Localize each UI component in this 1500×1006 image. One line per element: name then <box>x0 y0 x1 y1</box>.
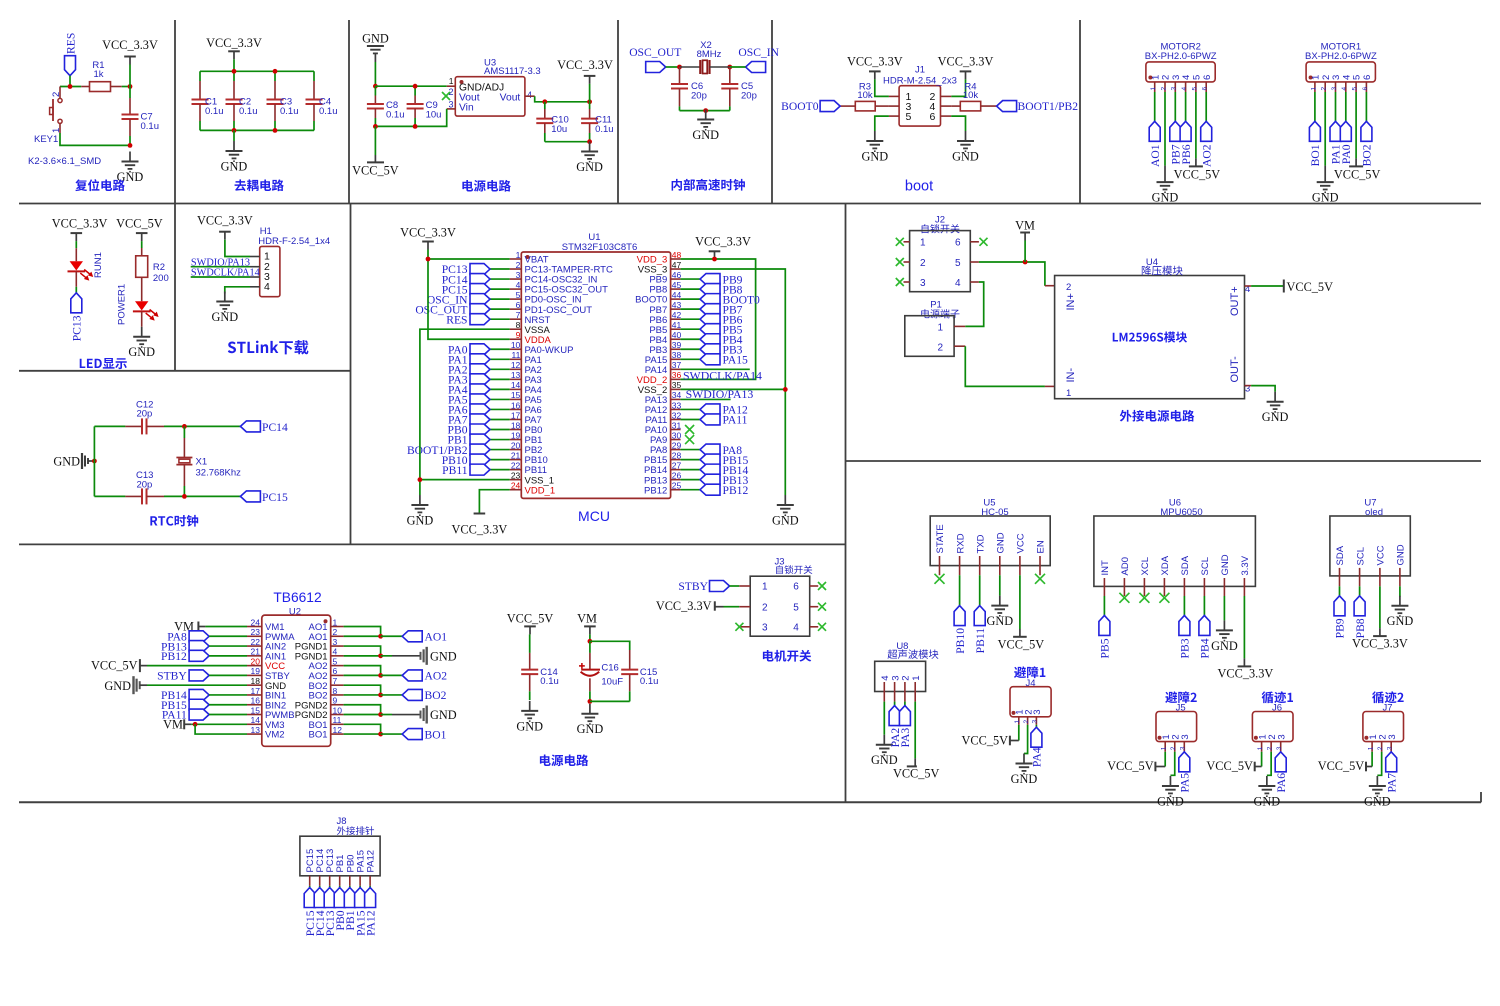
svg-text:15: 15 <box>251 705 261 715</box>
svg-text:44: 44 <box>672 290 682 300</box>
svg-text:5: 5 <box>955 258 961 269</box>
svg-text:1: 1 <box>1257 746 1264 750</box>
svg-text:VCC_5V: VCC_5V <box>962 734 1009 748</box>
svg-text:J1: J1 <box>915 65 925 76</box>
svg-text:SWDIO/PA13: SWDIO/PA13 <box>686 387 754 401</box>
svg-text:16: 16 <box>251 696 261 706</box>
svg-text:12: 12 <box>511 360 521 370</box>
svg-text:PB11: PB11 <box>442 464 468 477</box>
svg-text:6: 6 <box>955 238 961 249</box>
svg-text:15: 15 <box>511 390 521 400</box>
svg-text:VCC_5V: VCC_5V <box>1334 168 1381 182</box>
svg-text:2: 2 <box>937 342 943 353</box>
svg-text:1: 1 <box>937 323 943 334</box>
svg-text:PB12: PB12 <box>644 485 667 496</box>
svg-text:GND: GND <box>430 708 457 722</box>
svg-text:45: 45 <box>672 280 682 290</box>
svg-text:INT: INT <box>1100 560 1111 576</box>
svg-text:VCC_3.3V: VCC_3.3V <box>847 55 903 69</box>
svg-text:20p: 20p <box>136 479 152 490</box>
svg-text:SDA: SDA <box>1180 555 1191 575</box>
svg-text:R2: R2 <box>153 262 165 273</box>
svg-text:20p: 20p <box>741 90 757 101</box>
svg-text:1: 1 <box>1150 87 1157 91</box>
svg-text:6: 6 <box>333 666 338 676</box>
svg-text:47: 47 <box>672 260 682 270</box>
svg-text:PB9: PB9 <box>1334 618 1347 638</box>
svg-text:VCC_3.3V: VCC_3.3V <box>206 36 262 50</box>
svg-text:PC14: PC14 <box>262 421 288 434</box>
svg-text:GND: GND <box>577 722 604 736</box>
svg-text:RES: RES <box>64 33 77 54</box>
svg-text:2: 2 <box>1170 746 1177 750</box>
svg-text:10: 10 <box>333 705 343 715</box>
svg-text:17: 17 <box>511 410 521 420</box>
svg-text:BO1: BO1 <box>1309 144 1322 166</box>
svg-text:6: 6 <box>1362 87 1369 91</box>
svg-text:3: 3 <box>333 637 338 647</box>
svg-text:20p: 20p <box>691 90 707 101</box>
svg-text:GND: GND <box>1254 794 1281 808</box>
svg-text:PA15: PA15 <box>723 354 749 367</box>
svg-text:C16: C16 <box>601 663 618 674</box>
svg-text:GND: GND <box>1220 554 1231 575</box>
svg-text:VDD_1: VDD_1 <box>525 485 556 496</box>
svg-text:1: 1 <box>920 238 926 249</box>
svg-text:25: 25 <box>672 480 682 490</box>
svg-text:10: 10 <box>511 340 521 350</box>
svg-text:30: 30 <box>672 430 682 440</box>
svg-text:4: 4 <box>955 278 961 289</box>
svg-text:39: 39 <box>672 340 682 350</box>
svg-text:3: 3 <box>1171 87 1178 91</box>
svg-text:11: 11 <box>511 350 520 360</box>
svg-text:24: 24 <box>251 617 261 627</box>
svg-text:4: 4 <box>793 622 799 633</box>
svg-text:BO2: BO2 <box>425 689 447 702</box>
svg-text:7: 7 <box>333 676 338 686</box>
svg-text:XDA: XDA <box>1160 555 1171 575</box>
svg-text:23: 23 <box>251 627 261 637</box>
svg-text:4: 4 <box>264 281 270 293</box>
svg-text:VM: VM <box>1015 219 1035 233</box>
svg-text:12: 12 <box>333 725 343 735</box>
svg-text:3: 3 <box>1180 734 1191 739</box>
svg-text:0.1u: 0.1u <box>640 676 659 687</box>
svg-text:BOOT1/PB2: BOOT1/PB2 <box>1018 100 1079 113</box>
svg-text:GND: GND <box>1387 614 1414 628</box>
svg-text:AO1: AO1 <box>1149 144 1162 167</box>
svg-text:KEY1: KEY1 <box>34 134 58 145</box>
svg-text:6: 6 <box>930 111 936 123</box>
svg-text:3: 3 <box>1331 87 1338 91</box>
svg-text:3: 3 <box>448 100 453 110</box>
svg-text:STATE: STATE <box>935 524 946 553</box>
svg-text:40: 40 <box>672 330 682 340</box>
svg-text:2: 2 <box>920 258 926 269</box>
svg-text:GND: GND <box>1262 410 1289 424</box>
svg-text:PA0: PA0 <box>1340 144 1353 164</box>
svg-text:VCC_5V: VCC_5V <box>507 611 554 625</box>
svg-text:PB11: PB11 <box>974 628 987 654</box>
svg-text:GND: GND <box>1312 191 1339 205</box>
svg-text:5: 5 <box>793 602 799 613</box>
svg-text:0.1u: 0.1u <box>319 106 338 117</box>
svg-text:13: 13 <box>511 370 521 380</box>
svg-text:OSC_OUT: OSC_OUT <box>629 46 681 59</box>
svg-text:20p: 20p <box>136 409 152 420</box>
svg-text:VCC_3.3V: VCC_3.3V <box>1218 667 1274 681</box>
svg-text:1: 1 <box>1310 87 1317 91</box>
svg-text:VM: VM <box>163 718 183 732</box>
svg-text:46: 46 <box>672 270 682 280</box>
svg-text:36: 36 <box>672 370 682 380</box>
svg-text:10u: 10u <box>551 124 567 135</box>
svg-text:GND: GND <box>1011 772 1038 786</box>
svg-text:6: 6 <box>793 582 799 593</box>
svg-text:EN: EN <box>1036 540 1047 553</box>
svg-text:STBY: STBY <box>678 580 708 593</box>
svg-text:41: 41 <box>672 320 682 330</box>
svg-text:5: 5 <box>1352 87 1359 91</box>
svg-text:VCC_3.3V: VCC_3.3V <box>400 226 456 240</box>
svg-text:AD0: AD0 <box>1120 557 1131 575</box>
svg-text:18: 18 <box>251 676 261 686</box>
svg-text:J8: J8 <box>337 816 347 827</box>
svg-text:GND: GND <box>871 753 898 767</box>
svg-text:19: 19 <box>251 666 261 676</box>
svg-text:1: 1 <box>449 76 454 86</box>
svg-text:PA4: PA4 <box>1031 747 1044 767</box>
svg-text:RUN1: RUN1 <box>93 252 104 278</box>
svg-text:VCC_5V: VCC_5V <box>1318 759 1365 773</box>
svg-text:PB8: PB8 <box>1354 618 1367 638</box>
svg-text:PC15: PC15 <box>262 491 288 504</box>
svg-text:28: 28 <box>672 450 682 460</box>
svg-text:PB12: PB12 <box>723 484 749 497</box>
svg-text:4: 4 <box>1181 87 1188 91</box>
svg-text:6: 6 <box>516 300 521 310</box>
svg-text:14: 14 <box>251 715 261 725</box>
svg-text:3: 3 <box>920 278 926 289</box>
svg-text:31: 31 <box>672 420 682 430</box>
svg-text:BO2: BO2 <box>1361 144 1374 166</box>
svg-text:48: 48 <box>672 250 682 260</box>
svg-text:VCC_3.3V: VCC_3.3V <box>102 38 158 52</box>
svg-text:21: 21 <box>511 450 521 460</box>
svg-text:VCC_3.3V: VCC_3.3V <box>52 217 108 231</box>
svg-text:GND: GND <box>516 719 543 733</box>
svg-text:2: 2 <box>51 92 62 97</box>
svg-text:38: 38 <box>672 350 682 360</box>
svg-text:3.3V: 3.3V <box>1240 555 1251 575</box>
svg-text:35: 35 <box>672 380 682 390</box>
svg-text:5: 5 <box>1191 87 1198 91</box>
svg-text:PA5: PA5 <box>1179 773 1192 793</box>
svg-text:Vin: Vin <box>459 103 474 114</box>
svg-text:1: 1 <box>1066 388 1071 399</box>
svg-text:IN-: IN- <box>1065 368 1077 383</box>
svg-text:2: 2 <box>762 602 768 613</box>
svg-text:GND: GND <box>53 455 80 469</box>
svg-text:0.1u: 0.1u <box>386 110 405 121</box>
svg-text:6: 6 <box>1202 87 1209 91</box>
svg-text:1: 1 <box>1367 746 1374 750</box>
svg-text:GND: GND <box>996 532 1007 553</box>
svg-text:42: 42 <box>672 310 682 320</box>
svg-text:22: 22 <box>251 637 261 647</box>
svg-text:1: 1 <box>762 582 768 593</box>
svg-text:5: 5 <box>516 290 521 300</box>
svg-text:0.1u: 0.1u <box>540 676 559 687</box>
svg-text:BO1: BO1 <box>308 730 327 741</box>
svg-text:OUT-: OUT- <box>1229 356 1241 383</box>
svg-text:GND: GND <box>211 310 238 324</box>
svg-text:HDR-M-2.54_2x3: HDR-M-2.54_2x3 <box>883 75 957 86</box>
svg-text:TXD: TXD <box>975 534 986 553</box>
svg-text:6: 6 <box>1362 75 1373 80</box>
svg-text:3: 3 <box>1387 734 1398 739</box>
svg-text:VCC_5V: VCC_5V <box>998 638 1045 652</box>
svg-text:VCC_3.3V: VCC_3.3V <box>197 214 253 228</box>
svg-text:PB12: PB12 <box>161 650 187 663</box>
svg-text:26: 26 <box>672 470 682 480</box>
svg-text:PB4: PB4 <box>1199 638 1212 658</box>
svg-text:Vout: Vout <box>500 92 521 103</box>
svg-text:13: 13 <box>251 725 261 735</box>
svg-text:VCC_5V: VCC_5V <box>116 217 163 231</box>
svg-text:20: 20 <box>251 656 261 666</box>
svg-text:32: 32 <box>672 410 682 420</box>
svg-text:AO2: AO2 <box>1200 144 1213 167</box>
svg-text:K2-3.6×6.1_SMD: K2-3.6×6.1_SMD <box>28 156 101 167</box>
svg-text:X1: X1 <box>196 457 208 468</box>
svg-text:TB6612: TB6612 <box>273 590 321 605</box>
svg-text:3: 3 <box>1032 720 1039 724</box>
svg-text:2: 2 <box>1377 746 1384 750</box>
svg-text:PA12: PA12 <box>366 850 377 873</box>
svg-text:37: 37 <box>672 360 682 370</box>
svg-text:1k: 1k <box>93 69 103 80</box>
svg-text:2: 2 <box>1066 282 1071 293</box>
svg-text:VCC_5V: VCC_5V <box>1107 759 1154 773</box>
svg-text:3: 3 <box>516 270 521 280</box>
svg-text:43: 43 <box>672 300 682 310</box>
svg-text:AO2: AO2 <box>425 670 448 683</box>
svg-text:OUT+: OUT+ <box>1229 286 1241 316</box>
svg-text:VCC_5V: VCC_5V <box>893 766 940 780</box>
svg-text:SCL: SCL <box>1200 557 1211 575</box>
svg-text:VM: VM <box>577 611 597 625</box>
svg-text:1: 1 <box>333 617 338 627</box>
svg-text:0.1u: 0.1u <box>595 124 614 135</box>
svg-text:boot: boot <box>905 179 933 195</box>
svg-text:32.768Khz: 32.768Khz <box>196 468 242 479</box>
svg-text:5: 5 <box>906 111 912 123</box>
svg-text:P1: P1 <box>930 300 942 311</box>
svg-text:7: 7 <box>516 310 521 320</box>
svg-text:17: 17 <box>251 686 261 696</box>
svg-text:VCC_3.3V: VCC_3.3V <box>656 599 712 613</box>
svg-text:BX-PH2.0-6PWZ: BX-PH2.0-6PWZ <box>1145 51 1217 62</box>
svg-text:J2: J2 <box>935 215 945 226</box>
svg-text:27: 27 <box>672 460 682 470</box>
svg-text:4: 4 <box>333 647 338 657</box>
svg-text:VCC_3.3V: VCC_3.3V <box>557 58 613 72</box>
svg-text:23: 23 <box>511 470 521 480</box>
svg-text:6: 6 <box>1202 75 1213 80</box>
svg-text:14: 14 <box>511 380 521 390</box>
svg-text:SDA: SDA <box>1335 545 1346 565</box>
svg-text:VCC_5V: VCC_5V <box>91 659 138 673</box>
svg-text:3: 3 <box>1277 734 1288 739</box>
svg-text:GND: GND <box>362 32 389 46</box>
svg-text:GND: GND <box>430 649 457 663</box>
svg-text:PA7: PA7 <box>1385 773 1398 793</box>
svg-text:BOOT0: BOOT0 <box>781 100 819 113</box>
svg-text:9: 9 <box>333 696 338 706</box>
svg-text:VCC_3.3V: VCC_3.3V <box>1352 637 1408 651</box>
svg-text:4: 4 <box>1341 87 1348 91</box>
svg-text:PB6: PB6 <box>1180 144 1193 164</box>
svg-text:VCC_5V: VCC_5V <box>1206 759 1253 773</box>
svg-text:SWDCLK/PA14: SWDCLK/PA14 <box>683 369 762 383</box>
svg-text:16: 16 <box>511 400 521 410</box>
svg-text:PA12: PA12 <box>364 910 377 936</box>
svg-text:GND: GND <box>1364 794 1391 808</box>
svg-text:GND: GND <box>692 128 719 142</box>
svg-text:SCL: SCL <box>1355 547 1366 565</box>
svg-text:PA3: PA3 <box>899 728 912 748</box>
svg-text:10uF: 10uF <box>601 677 623 688</box>
svg-text:SWDCLK/PA14: SWDCLK/PA14 <box>191 268 260 279</box>
svg-text:8MHz: 8MHz <box>697 49 722 60</box>
svg-text:PA6: PA6 <box>1275 773 1288 793</box>
svg-text:1: 1 <box>516 250 521 260</box>
svg-text:GND: GND <box>986 614 1013 628</box>
svg-text:STBY: STBY <box>157 670 187 683</box>
svg-text:VM2: VM2 <box>265 730 285 741</box>
svg-text:PB10: PB10 <box>954 628 967 654</box>
svg-text:VCC_3.3V: VCC_3.3V <box>938 55 994 69</box>
svg-text:GND: GND <box>576 160 603 174</box>
svg-text:AO1: AO1 <box>425 630 448 643</box>
svg-text:24: 24 <box>511 480 521 490</box>
svg-text:MCU: MCU <box>578 508 610 524</box>
svg-text:2: 2 <box>1160 87 1167 91</box>
svg-text:3: 3 <box>1387 746 1394 750</box>
svg-text:22: 22 <box>511 460 521 470</box>
svg-text:0.1u: 0.1u <box>141 121 160 132</box>
svg-text:3: 3 <box>1276 746 1283 750</box>
svg-text:AMS1117-3.3: AMS1117-3.3 <box>484 66 541 77</box>
svg-text:GND: GND <box>1396 544 1407 565</box>
svg-text:18: 18 <box>511 420 521 430</box>
svg-text:PC13: PC13 <box>71 315 84 341</box>
svg-text:RES: RES <box>446 313 467 326</box>
svg-text:PB3: PB3 <box>1179 638 1192 658</box>
svg-text:BO1: BO1 <box>425 728 447 741</box>
svg-text:4: 4 <box>516 280 521 290</box>
svg-text:4: 4 <box>527 90 532 100</box>
svg-text:PA11: PA11 <box>723 414 748 427</box>
svg-text:10k: 10k <box>857 90 873 101</box>
svg-text:2: 2 <box>1321 87 1328 91</box>
svg-text:GND: GND <box>1152 191 1179 205</box>
svg-text:GND: GND <box>1211 639 1238 653</box>
svg-text:3: 3 <box>1180 746 1187 750</box>
svg-text:PB5: PB5 <box>1099 638 1112 658</box>
svg-text:VCC_3.3V: VCC_3.3V <box>452 523 508 537</box>
svg-text:OSC_IN: OSC_IN <box>738 46 779 59</box>
svg-text:XCL: XCL <box>1140 557 1151 575</box>
svg-text:5: 5 <box>333 656 338 666</box>
svg-text:10k: 10k <box>963 90 979 101</box>
svg-text:2: 2 <box>1266 746 1273 750</box>
svg-text:1: 1 <box>1014 720 1021 724</box>
svg-text:20: 20 <box>511 440 521 450</box>
svg-text:0.1u: 0.1u <box>280 106 299 117</box>
svg-text:GND: GND <box>128 345 155 359</box>
svg-text:8: 8 <box>333 686 338 696</box>
svg-text:VCC: VCC <box>1376 545 1387 565</box>
svg-text:3: 3 <box>762 622 768 633</box>
svg-text:21: 21 <box>251 647 261 657</box>
svg-text:200: 200 <box>153 273 169 284</box>
svg-text:POWER1: POWER1 <box>116 284 127 325</box>
svg-text:11: 11 <box>333 715 342 725</box>
svg-text:34: 34 <box>672 390 682 400</box>
svg-text:GND: GND <box>104 679 131 693</box>
svg-text:VCC: VCC <box>1016 533 1027 553</box>
svg-text:GND: GND <box>407 513 434 527</box>
svg-text:2: 2 <box>1023 720 1030 724</box>
svg-text:BX-PH2.0-6PWZ: BX-PH2.0-6PWZ <box>1305 51 1377 62</box>
svg-text:9: 9 <box>516 330 521 340</box>
svg-text:RXD: RXD <box>955 533 966 553</box>
svg-text:2: 2 <box>333 627 338 637</box>
svg-text:HDR-F-2.54_1x4: HDR-F-2.54_1x4 <box>258 236 330 247</box>
svg-text:0.1u: 0.1u <box>239 106 258 117</box>
svg-text:GND: GND <box>861 149 888 163</box>
svg-text:VCC_3.3V: VCC_3.3V <box>695 235 751 249</box>
svg-text:10u: 10u <box>426 110 442 121</box>
svg-text:33: 33 <box>672 400 682 410</box>
svg-text:VCC_5V: VCC_5V <box>1174 168 1221 182</box>
svg-text:19: 19 <box>511 430 521 440</box>
svg-text:GND: GND <box>952 149 979 163</box>
svg-text:VCC_5V: VCC_5V <box>1287 280 1334 294</box>
svg-text:GND: GND <box>1157 794 1184 808</box>
svg-text:GND: GND <box>772 513 799 527</box>
svg-text:GND: GND <box>221 159 248 173</box>
svg-text:VCC_5V: VCC_5V <box>352 164 399 178</box>
svg-text:8: 8 <box>516 320 521 330</box>
svg-text:29: 29 <box>672 440 682 450</box>
svg-text:1: 1 <box>1161 746 1168 750</box>
svg-text:2: 2 <box>516 260 521 270</box>
svg-text:STM32F103C8T6: STM32F103C8T6 <box>562 242 638 253</box>
svg-text:IN+: IN+ <box>1065 293 1077 310</box>
svg-text:1: 1 <box>911 676 922 681</box>
svg-text:3: 3 <box>1032 710 1043 715</box>
svg-text:0.1u: 0.1u <box>205 106 224 117</box>
